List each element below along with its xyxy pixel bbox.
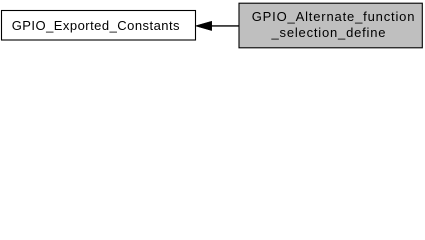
svg-text:GPIO_Exported_Constants: GPIO_Exported_Constants (12, 18, 180, 33)
svg-text:GPIO_Alternate_function: GPIO_Alternate_function (252, 9, 416, 24)
edge arrowhead pointing left, tip on GPIO_Exported_Constants border (195, 21, 211, 30)
svg-text:_selection_define: _selection_define (271, 25, 387, 40)
node GPIO_Exported_Constants box (2, 11, 196, 41)
node GPIO_Alternate_function_selection_define box (239, 3, 422, 48)
edge wire from GPIO_Alternate_function_selection_define to GPIO_Exported_Constants (211, 25, 239, 27)
background (0, 0, 425, 52)
